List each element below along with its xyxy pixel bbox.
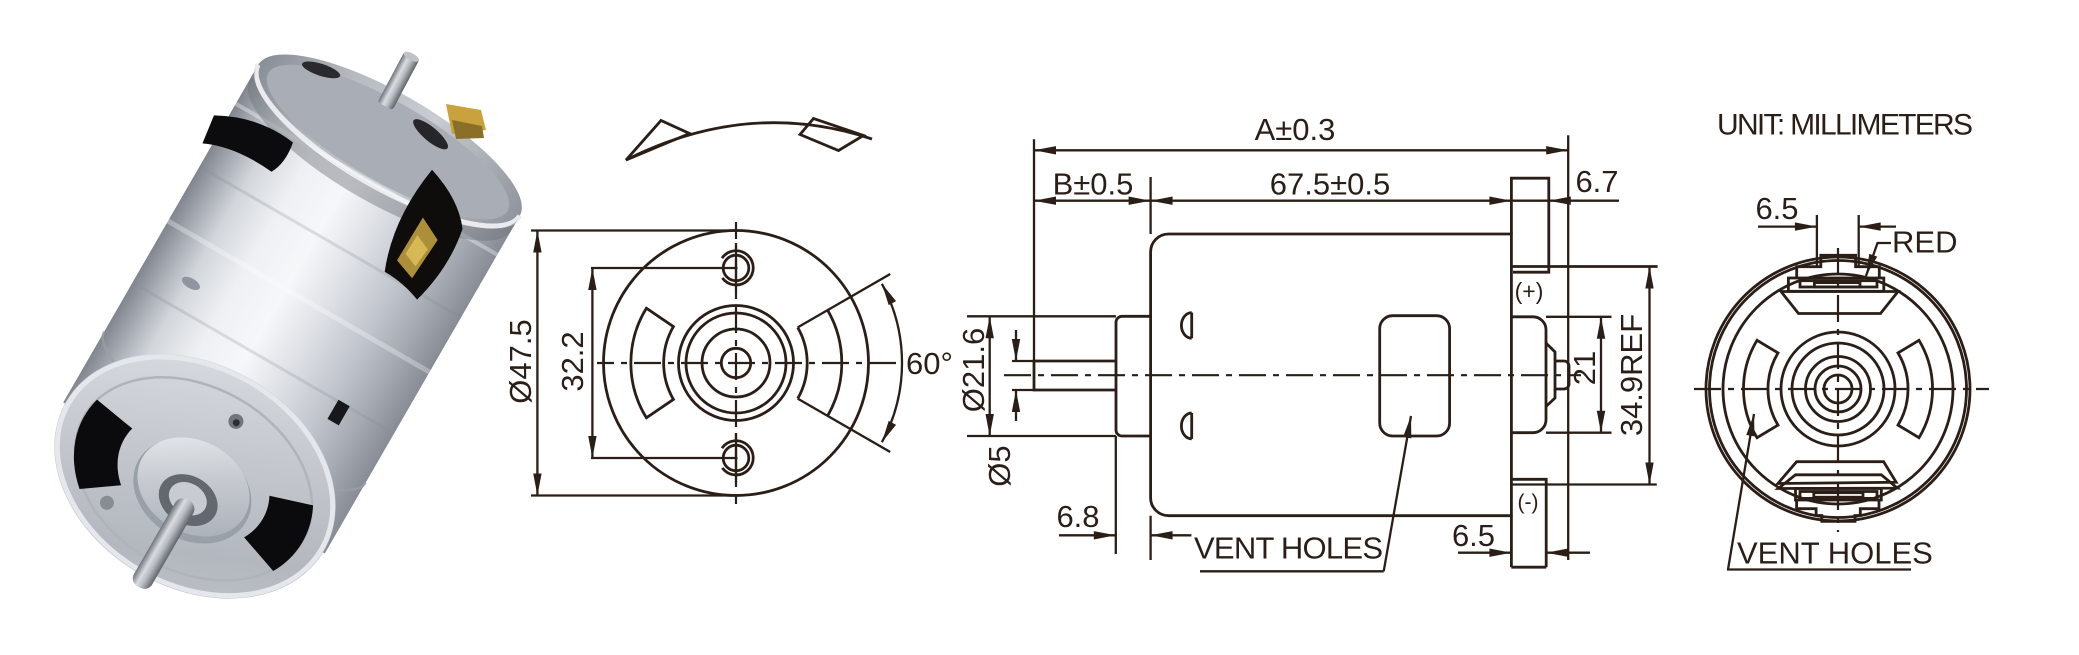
bottom terminal housing inner trapezoid [1778, 475, 1897, 489]
vent holes leader rear [1728, 414, 1754, 570]
dim 34.9REF extension bottom [1511, 483, 1656, 485]
dia21.6 dimension line [989, 316, 991, 436]
dim 47.5 extension lines [531, 231, 736, 496]
vent dimple bottom [1181, 413, 1191, 439]
dim A extension line left [1033, 139, 1035, 361]
center rings [1781, 332, 1895, 446]
svg-text:60°: 60° [906, 346, 953, 381]
top terminal housing trapezoid [1781, 292, 1898, 314]
motor body outline [1151, 234, 1512, 516]
bottom terminal housing outer trapezoid [1778, 462, 1896, 484]
left vent slot [1743, 340, 1778, 437]
svg-text:21: 21 [1567, 351, 1602, 385]
dia5 arrows [1015, 330, 1017, 361]
dim 47.5 dimension line [536, 231, 538, 496]
svg-text:RED: RED [1892, 225, 1957, 260]
hub [114, 417, 270, 564]
small rect hole near front [327, 400, 349, 426]
face kidney vent right [237, 484, 321, 577]
svg-text:6.5: 6.5 [1755, 191, 1798, 226]
top mounting hole [723, 255, 749, 281]
right vent slot with 60 degree lines [798, 327, 807, 398]
rear shaft nub [377, 50, 420, 111]
FRONT VIEW [503, 119, 953, 505]
svg-text:Ø5: Ø5 [982, 445, 1017, 486]
bottom step and tab [1797, 500, 1879, 521]
dim A extension line right [1567, 135, 1569, 560]
bearing boss [1555, 361, 1569, 389]
svg-text:Ø47.5: Ø47.5 [503, 319, 538, 403]
dim 32.2 extension lines [591, 268, 738, 458]
vertical centerline rear [1837, 248, 1839, 532]
svg-text:VENT HOLES: VENT HOLES [1194, 531, 1383, 566]
body left extension up [1149, 177, 1151, 234]
right vent slot [1898, 340, 1933, 437]
bottom terminal block [1796, 489, 1882, 501]
svg-text:32.2: 32.2 [555, 331, 590, 391]
svg-text:67.5±0.5: 67.5±0.5 [1270, 167, 1390, 202]
svg-text:Ø21.6: Ø21.6 [956, 328, 991, 412]
endcap chamfer bump [1546, 343, 1555, 407]
can inner circle [1710, 261, 1967, 518]
dim 21 [1600, 317, 1602, 433]
shaft [1034, 361, 1116, 390]
hub circles [679, 306, 794, 421]
svg-text:6.7: 6.7 [1575, 164, 1618, 199]
top terminal tab [1511, 178, 1548, 272]
rotation direction symbol [626, 119, 872, 161]
motor rear endcap ellipse [235, 24, 544, 256]
bottom mounting hole [723, 445, 749, 471]
red leader [1866, 243, 1891, 276]
small dent [180, 274, 202, 293]
60 degree extension lines [798, 274, 891, 327]
motor can body [63, 65, 520, 554]
svg-text:(-): (-) [1518, 491, 1539, 514]
dim 6.5 [1458, 552, 1511, 554]
front face [10, 305, 380, 648]
front flange [1116, 316, 1151, 436]
bottom terminal tab [1511, 479, 1546, 567]
shaft [130, 495, 198, 592]
shaft dia5 extension lines [1012, 361, 1040, 390]
SIDE VIEW [956, 112, 1658, 571]
dim A line [1034, 149, 1568, 151]
dim 6.5 arrows [1758, 225, 1817, 227]
top terminal block [1788, 278, 1883, 291]
flange extension down [1116, 436, 1151, 560]
left vent slot [631, 308, 674, 418]
dim 6.7 [1511, 200, 1548, 202]
brushed metal bands [235, 102, 499, 256]
horizontal centerline [597, 362, 899, 364]
top terminal step and tab [1797, 255, 1880, 278]
vent dimple top [1181, 313, 1191, 339]
outer can circle [1706, 257, 1970, 521]
dim 6.8 [1059, 534, 1116, 536]
endcap circle [1723, 274, 1953, 504]
dashed axis centerline [1004, 374, 1581, 376]
dia21.6 extension lines [967, 316, 1116, 436]
svg-text:B±0.5: B±0.5 [1053, 167, 1134, 202]
svg-text:UNIT: MILLIMETERS: UNIT: MILLIMETERS [1717, 109, 1973, 142]
vent holes leader [1384, 416, 1411, 571]
dim B line [1034, 200, 1151, 202]
svg-text:6.5: 6.5 [1452, 518, 1495, 553]
vertical centerline [735, 222, 737, 504]
face features [52, 384, 321, 599]
svg-text:(+): (+) [1515, 278, 1544, 304]
PHOTO [0, 18, 543, 655]
can vent left (black) [199, 100, 295, 183]
horizontal centerline rear [1694, 388, 1989, 390]
dim 67.5 line [1151, 200, 1512, 202]
vent hole rounded rect [1380, 316, 1450, 436]
brass terminal at rear right [446, 104, 486, 134]
face screw holes [226, 411, 246, 431]
svg-text:6.8: 6.8 [1056, 499, 1099, 534]
can seam line [84, 331, 366, 517]
svg-text:A±0.3: A±0.3 [1255, 112, 1336, 147]
60 degree dimension arc [882, 284, 902, 442]
REAR VIEW [1694, 109, 1989, 571]
face kidney vent left [52, 398, 153, 506]
dim 32.2 dimension line [591, 268, 593, 458]
can rim shadow near rear [226, 67, 518, 271]
dim 34.9REF line [1648, 267, 1650, 485]
endcap bell [1511, 317, 1546, 433]
endcap extension lines for 21 [1546, 317, 1612, 433]
can vent right (black with brass) [369, 168, 483, 303]
svg-text:34.9REF: 34.9REF [1614, 314, 1649, 436]
svg-text:VENT HOLES: VENT HOLES [1737, 536, 1933, 571]
dim 6.5 extension lines [1817, 215, 1859, 267]
front flange outer circle [604, 231, 869, 496]
